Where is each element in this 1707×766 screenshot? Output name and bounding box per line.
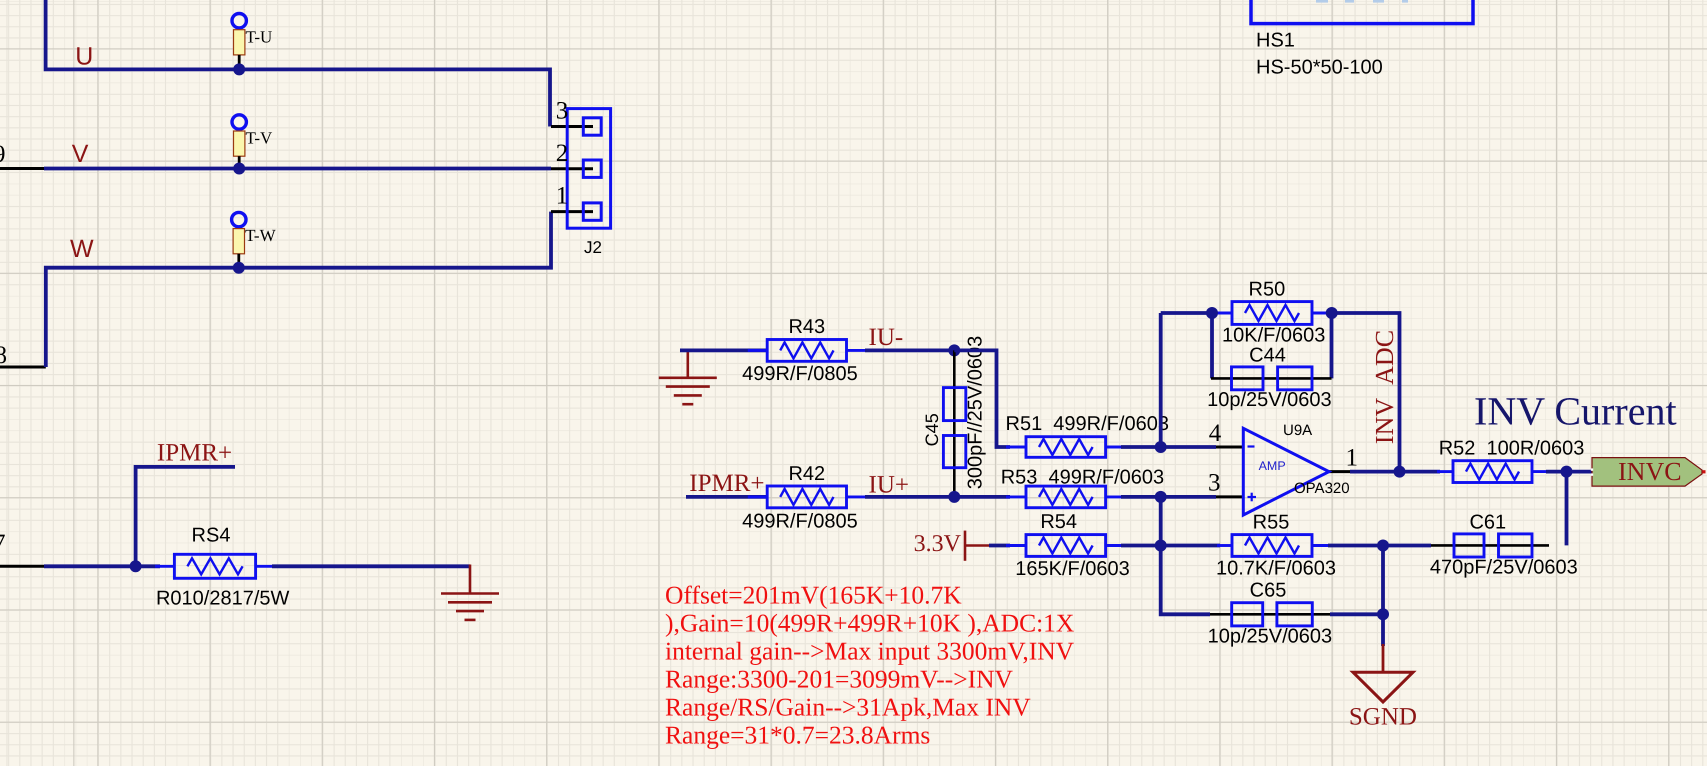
svg-text:J2: J2 xyxy=(584,238,602,257)
svg-text:IPMR+: IPMR+ xyxy=(689,470,764,497)
svg-text:IU-: IU- xyxy=(869,324,904,351)
svg-text:10.7K/F/0603: 10.7K/F/0603 xyxy=(1216,557,1336,579)
svg-text:IPMR+: IPMR+ xyxy=(157,440,232,467)
svg-text:9: 9 xyxy=(0,141,6,168)
svg-text:8: 8 xyxy=(0,342,7,369)
svg-text:499R/F/0805: 499R/F/0805 xyxy=(742,363,858,385)
svg-text:Range=31*0.7=23.8Arms: Range=31*0.7=23.8Arms xyxy=(665,721,930,750)
svg-text:C44: C44 xyxy=(1249,344,1286,366)
svg-text:T-W: T-W xyxy=(245,226,276,245)
svg-text:10p/25V/0603: 10p/25V/0603 xyxy=(1208,625,1333,647)
svg-text:R50: R50 xyxy=(1249,279,1286,301)
svg-text:R54: R54 xyxy=(1040,511,1077,533)
svg-text:3: 3 xyxy=(1208,470,1221,497)
svg-text:R52 100R/0603: R52 100R/0603 xyxy=(1439,438,1585,460)
svg-text:W: W xyxy=(70,235,94,263)
svg-text:C45: C45 xyxy=(922,413,942,446)
svg-text:C61: C61 xyxy=(1469,511,1506,533)
svg-text:T-V: T-V xyxy=(246,129,273,148)
svg-text:3: 3 xyxy=(556,98,569,125)
svg-text:R43: R43 xyxy=(788,316,825,338)
svg-text:R53 499R/F/0603: R53 499R/F/0603 xyxy=(1001,467,1164,489)
svg-text:R55: R55 xyxy=(1253,512,1290,534)
svg-text:165K/F/0603: 165K/F/0603 xyxy=(1015,558,1130,580)
svg-text:1: 1 xyxy=(1346,445,1359,472)
svg-text:Range:3300-201=3099mV-->INV: Range:3300-201=3099mV-->INV xyxy=(665,665,1014,694)
svg-text:R42: R42 xyxy=(788,463,825,485)
svg-text:300pF//25V/0603: 300pF//25V/0603 xyxy=(965,336,987,489)
svg-text:HS-50*50-100: HS-50*50-100 xyxy=(1256,57,1383,79)
svg-text:Offset=201mV(165K+10.7K: Offset=201mV(165K+10.7K xyxy=(665,581,962,610)
svg-text:SGND: SGND xyxy=(1349,704,1417,731)
svg-text:R010/2817/5W: R010/2817/5W xyxy=(156,588,290,610)
svg-text:C65: C65 xyxy=(1250,579,1287,601)
svg-text:IU+: IU+ xyxy=(869,472,909,499)
svg-text:HS1: HS1 xyxy=(1256,29,1295,51)
svg-text:7: 7 xyxy=(0,530,6,557)
svg-text:499R/F/0805: 499R/F/0805 xyxy=(742,511,858,533)
svg-text:internal gain-->Max input 3300: internal gain-->Max input 3300mV,INV xyxy=(665,637,1075,666)
svg-text:),Gain=10(499R+499R+10K ),ADC:: ),Gain=10(499R+499R+10K ),ADC:1X xyxy=(665,609,1074,638)
svg-text:AMP: AMP xyxy=(1259,459,1286,473)
svg-text:10K/F/0603: 10K/F/0603 xyxy=(1222,325,1325,347)
svg-text:V: V xyxy=(72,140,89,168)
svg-text:INVC: INVC xyxy=(1618,457,1682,486)
svg-text:3.3V: 3.3V xyxy=(914,531,962,557)
svg-text:RS4: RS4 xyxy=(192,525,231,547)
svg-text:10p/25V/0603: 10p/25V/0603 xyxy=(1207,389,1332,411)
svg-text:R51 499R/F/0603: R51 499R/F/0603 xyxy=(1006,413,1169,435)
svg-text:4: 4 xyxy=(1209,420,1222,447)
svg-text:470pF/25V/0603: 470pF/25V/0603 xyxy=(1430,557,1578,579)
svg-text:INV ADC: INV ADC xyxy=(1370,330,1399,444)
svg-text:OPA320: OPA320 xyxy=(1294,480,1350,497)
svg-text:U9A: U9A xyxy=(1283,422,1312,439)
svg-text:Range/RS/Gain-->31Apk,Max INV: Range/RS/Gain-->31Apk,Max INV xyxy=(665,693,1031,722)
svg-text:1: 1 xyxy=(556,183,569,210)
svg-text:INV Current: INV Current xyxy=(1474,388,1677,433)
svg-text:T-U: T-U xyxy=(246,27,273,46)
svg-text:2: 2 xyxy=(556,140,569,167)
svg-text:U: U xyxy=(75,42,93,70)
